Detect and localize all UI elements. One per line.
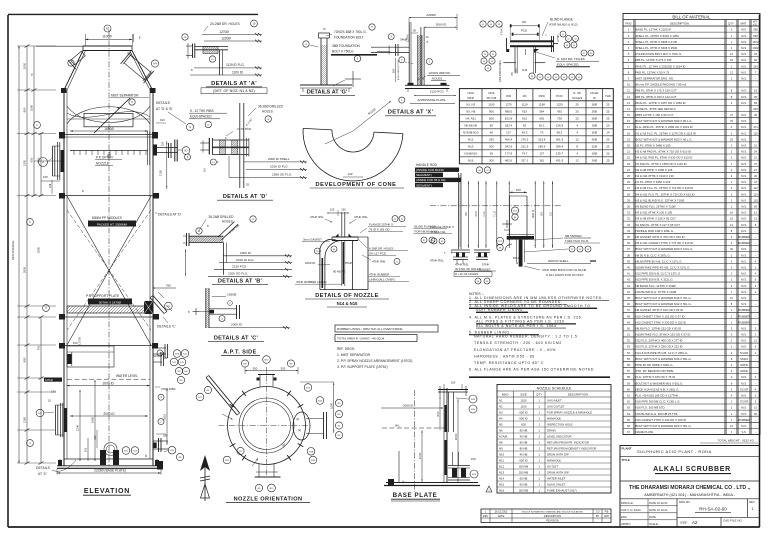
- top nozzle N14 N15 stub: [438, 389, 468, 391]
- svg-text:150: 150: [516, 188, 521, 192]
- svg-text:898.5: 898.5: [505, 110, 513, 114]
- svg-text:221.9: 221.9: [521, 145, 529, 149]
- svg-text:53: 53: [627, 345, 630, 349]
- svg-text:10: 10: [627, 83, 630, 87]
- vertical dim lines with labels: [467, 181, 469, 248]
- svg-text:37: 37: [754, 162, 757, 166]
- svg-text:PCD: PCD: [521, 29, 528, 33]
- svg-text:GAS INLET: GAS INLET: [547, 398, 562, 402]
- svg-text:BILL OF MATERIAL: BILL OF MATERIAL: [672, 14, 711, 19]
- svg-text:M.S.: M.S.: [741, 76, 747, 80]
- svg-text:OD: OD: [465, 212, 468, 216]
- svg-text:2225Ø: 2225Ø: [426, 13, 436, 17]
- svg-text:33: 33: [627, 223, 630, 227]
- svg-text:29: 29: [627, 198, 630, 202]
- svg-text:25: 25: [606, 110, 610, 114]
- svg-text:P.B: P.B: [605, 511, 609, 514]
- svg-text:N. MAT DR. HOLES: N. MAT DR. HOLES: [557, 57, 585, 61]
- development of cone: [303, 128, 403, 181]
- girth seam 2: [64, 195, 154, 197]
- sheet border top partial: [8, 13, 258, 15]
- svg-text:M.S.: M.S.: [741, 259, 747, 263]
- svg-text:WATER INLET: WATER INLET: [547, 476, 566, 480]
- svg-text:23: 23: [627, 162, 630, 166]
- svg-text:M.S.: M.S.: [741, 290, 747, 294]
- black box with X at wall: [144, 301, 153, 314]
- svg-text:150: 150: [471, 457, 476, 461]
- svg-text:M.S.: M.S.: [741, 326, 747, 330]
- bottom circles row: [537, 74, 543, 80]
- svg-text:18: 18: [627, 131, 630, 135]
- svg-text:RFD: RFD: [539, 94, 546, 98]
- svg-text:DEVELOPMENT OF CONE: DEVELOPMENT OF CONE: [315, 182, 396, 188]
- svg-text:(TYP): (TYP): [516, 68, 518, 74]
- svg-text:1150: 1150: [159, 170, 163, 176]
- svg-text:DATE: DATE: [649, 515, 656, 519]
- svg-text:2000 ID: 2000 ID: [240, 251, 252, 255]
- svg-text:HOLE: HOLE: [590, 91, 598, 95]
- svg-text:DESCRIPTION: DESCRIPTION: [568, 393, 589, 397]
- svg-text:DETAILS: DETAILS: [36, 466, 51, 470]
- top dim 1100: [85, 38, 132, 40]
- svg-text:40 NB: 40 NB: [520, 452, 528, 456]
- svg-text:127: 127: [506, 131, 511, 135]
- svg-text:DETAILS 'C': DETAILS 'C': [157, 325, 176, 329]
- shell walls: [63, 90, 65, 466]
- svg-text:12: 12: [754, 217, 757, 221]
- svg-text:738: 738: [557, 117, 562, 121]
- svg-text:FLG. RING PL. 25THK X 2286 OD: FLG. RING PL. 25THK X 2286 OD X 2019 ID: [636, 125, 693, 129]
- detail X hatched ring column: [417, 35, 419, 85]
- svg-text:43: 43: [627, 284, 630, 288]
- detail at C hatched column: [205, 288, 207, 328]
- svg-text:RIB PL. 8THK X 150 X 122: RIB PL. 8THK X 150 X 122 CUT: [636, 95, 677, 99]
- detail B left flange plate: [186, 233, 188, 246]
- svg-text:700: 700: [37, 345, 41, 350]
- svg-text:26Ø: 26Ø: [592, 103, 598, 107]
- svg-text:MIST SEPARATOR DRG. NO.: MIST SEPARATOR DRG. NO.: [636, 76, 675, 80]
- svg-text:N10 BLIND FLG. OTHK X 102Ø: N10 BLIND FLG. OTHK X 102Ø: [636, 290, 677, 294]
- svg-text:2120 PCD: 2120 PCD: [232, 265, 247, 269]
- bottom right outlet nozzle: [153, 440, 168, 442]
- svg-text:FOR N8,N9 & N11: FOR N8,N9 & N11: [415, 229, 439, 233]
- svg-text:1000: 1000: [329, 403, 333, 409]
- detail X wall section: [408, 22, 410, 85]
- svg-text:80 NB: 80 NB: [520, 440, 528, 444]
- svg-text:N12 PIPE 250 N.B. CL'C' X 137L: N12 PIPE 250 N.B. CL'C' X 137L.G.: [636, 272, 682, 276]
- svg-text:12: 12: [576, 138, 580, 142]
- svg-text:DATE: DATE: [498, 515, 505, 518]
- svg-text:APPRO: APPRO: [621, 522, 630, 526]
- svg-text:4THK RUBBER LINING: 4THK RUBBER LINING: [296, 280, 327, 284]
- svg-text:N1 PAD PL. 8THK X 117 X 95: N1 PAD PL. 8THK X 117 X 95 CUT: [636, 223, 681, 227]
- svg-text:N12: N12: [499, 464, 505, 468]
- svg-text:NOZZLE SCHEDULE: NOZZLE SCHEDULE: [537, 387, 572, 391]
- svg-text:M.S.: M.S.: [741, 180, 747, 184]
- svg-text:12: 12: [730, 424, 733, 428]
- svg-text:80MM PP SADDLES: 80MM PP SADDLES: [92, 216, 122, 220]
- target cross symbol: [345, 78, 361, 80]
- svg-text:BLIND FLANGE: BLIND FLANGE: [415, 224, 436, 228]
- dim 125 150: [327, 212, 349, 214]
- svg-text:M.S.: M.S.: [741, 302, 747, 306]
- svg-text:4THK RSL: 4THK RSL: [310, 215, 324, 219]
- svg-text:1900: 1900: [91, 416, 95, 423]
- svg-text:N3: N3: [499, 410, 503, 414]
- svg-text:65: 65: [490, 152, 494, 156]
- svg-text:DETAILS OF NOZZLE: DETAILS OF NOZZLE: [315, 293, 379, 299]
- svg-text:M.S.: M.S.: [741, 34, 747, 38]
- svg-text:4THK RIBS 8NOS FOR N3,N4,N8: 4THK RIBS 8NOS FOR N3,N4,N8: [542, 268, 586, 272]
- svg-text:FLG: FLG: [483, 212, 486, 217]
- svg-text:2019 ID FLG.: 2019 ID FLG.: [270, 165, 289, 169]
- svg-text:30: 30: [627, 205, 630, 209]
- svg-text:8THK: 8THK: [513, 256, 520, 260]
- svg-text:2120 PCD: 2120 PCD: [430, 90, 445, 94]
- svg-text:1050: 1050: [23, 62, 27, 69]
- signature grid: [620, 505, 648, 507]
- right flange stub: [306, 418, 323, 420]
- svg-text:STD. 90° BEND 80 OD HDPE: STD. 90° BEND 80 OD HDPE: [636, 369, 674, 373]
- svg-text:24: 24: [730, 58, 733, 62]
- svg-text:DRAIN: DRAIN: [547, 428, 556, 432]
- svg-text:RING PL. 12 THK X 2225OD X 202: RING PL. 12 THK X 2225OD X 2024 ID: [636, 64, 686, 68]
- svg-text:650: 650: [30, 157, 34, 162]
- svg-text:40: 40: [627, 265, 630, 269]
- svg-text:19: 19: [627, 137, 630, 141]
- internal spray header pipe: [70, 150, 148, 152]
- horizontal centerline: [430, 205, 561, 207]
- svg-text:APP: APP: [604, 515, 609, 518]
- svg-text:62: 62: [627, 400, 630, 404]
- svg-text:90 HDPE: 90 HDPE: [333, 269, 345, 273]
- svg-text:177.8: 177.8: [505, 152, 513, 156]
- svg-text:150: 150: [51, 390, 56, 394]
- svg-text:-: -: [755, 138, 756, 141]
- svg-text:DETAILS AT 'A': DETAILS AT 'A': [211, 81, 257, 87]
- svg-text:FOUNDATION BOLT M27 X 750L.G.: FOUNDATION BOLT M27 X 750L.G.: [636, 52, 683, 56]
- svg-text:N1 PL. 8THK X 3450 X 203: N1 PL. 8THK X 3450 X 203: [636, 180, 671, 184]
- svg-text:900: 900: [489, 110, 494, 114]
- svg-text:ALKALI INLET: ALKALI INLET: [547, 482, 565, 486]
- rev cell: [747, 499, 749, 518]
- svg-text:95: 95: [754, 95, 757, 99]
- svg-text:PIPE 80 OD HDPE X 600L.G.: PIPE 80 OD HDPE X 600L.G.: [636, 363, 674, 367]
- svg-text:PLANT: PLANT: [622, 447, 632, 451]
- svg-text:N2 PL. 8THK X 3480 X 100: N2 PL. 8THK X 3480 X 100: [636, 144, 671, 148]
- svg-text:28: 28: [627, 192, 630, 196]
- svg-text:M.S.: M.S.: [741, 40, 747, 44]
- 1150 dim outside wall: [166, 141, 168, 189]
- nozzle neck rectangle: [509, 196, 511, 240]
- svg-text:M.S.: M.S.: [741, 381, 747, 385]
- svg-text:N3 BLIND FLG. 25THK X 710Ø: N3 BLIND FLG. 25THK X 710Ø: [636, 205, 677, 209]
- svg-text:FUME EXHAUST (N17): FUME EXHAUST (N17): [547, 488, 577, 492]
- svg-text:31: 31: [754, 144, 757, 148]
- svg-text:N16: N16: [499, 488, 505, 492]
- svg-text:TEMP. RESISTANCE UPTO 85° C: TEMP. RESISTANCE UPTO 85° C: [474, 361, 544, 365]
- svg-text:58: 58: [627, 375, 630, 379]
- svg-text:M.S.: M.S.: [741, 131, 747, 135]
- svg-text:16: 16: [627, 119, 630, 123]
- svg-text:73: 73: [540, 131, 544, 135]
- svg-text:550: 550: [281, 366, 286, 370]
- svg-text:N4: N4: [499, 416, 503, 420]
- svg-text:900: 900: [23, 107, 27, 112]
- right manhole ellipse: [293, 412, 310, 440]
- svg-text:FL.G: FL.G: [494, 211, 497, 217]
- svg-text:SS316: SS316: [740, 357, 749, 361]
- svg-text:-: -: [755, 303, 756, 306]
- detail B vertical pipe: [222, 243, 224, 275]
- svg-text:35: 35: [754, 113, 757, 117]
- svg-text:N3 & N8 8THK X 105 X 95: N3 & N8 8THK X 105 X 95 CUT: [636, 217, 677, 221]
- svg-text:INSPECTION HOLE: INSPECTION HOLE: [547, 422, 573, 426]
- svg-text:25: 25: [606, 138, 610, 142]
- svg-text:600 ID: 600 ID: [519, 416, 527, 420]
- svg-text:N16 FLG. 300 NB STD.: N16 FLG. 300 NB STD.: [636, 406, 666, 410]
- svg-text:ELEVATION: ELEVATION: [84, 488, 130, 495]
- svg-text:NOZZLE: NOZZLE: [96, 162, 110, 166]
- svg-text:THE DHARAMSI MORARJI CHEMICAL: THE DHARAMSI MORARJI CHEMICAL CO . LTD .…: [629, 485, 751, 491]
- svg-text:PNO: PNO: [625, 21, 632, 25]
- svg-text:SHELL PL. 8THK X 6308 X 2530: SHELL PL. 8THK X 6308 X 2530: [636, 46, 678, 50]
- svg-text:DESCRIPTION: DESCRIPTION: [544, 515, 561, 518]
- svg-text:-: -: [755, 309, 756, 312]
- svg-text:N8: N8: [499, 440, 503, 444]
- svg-text:M.S.: M.S.: [741, 137, 747, 141]
- svg-text:72NOS 38Ø X 750L.G.: 72NOS 38Ø X 750L.G.: [334, 30, 367, 34]
- svg-text:-: -: [755, 77, 756, 80]
- svg-text:20-26Ø DR. HOLES: 20-26Ø DR. HOLES: [210, 22, 240, 26]
- svg-text:BOLT X 750LG: BOLT X 750LG: [332, 50, 354, 54]
- svg-text:210: 210: [93, 435, 97, 440]
- svg-text:1872: 1872: [753, 40, 759, 44]
- svg-text:20: 20: [730, 137, 733, 141]
- svg-text:52: 52: [627, 339, 630, 343]
- svg-text:435: 435: [557, 110, 562, 114]
- svg-text:890: 890: [23, 357, 27, 362]
- svg-text:S'COR: S'COR: [740, 400, 748, 404]
- svg-text:29,26: 29,26: [513, 211, 518, 213]
- svg-text:N3 & N11 BLIND FLG. 25THK X 71: N3 & N11 BLIND FLG. 25THK X 710Ø: [636, 198, 685, 202]
- svg-text:8.0: 8.0: [202, 168, 206, 172]
- svg-text:138: 138: [48, 183, 52, 188]
- detail X left nozzle flange: [371, 46, 409, 48]
- svg-text:HANDLE ROD: HANDLE ROD: [416, 163, 438, 167]
- svg-text:-: -: [755, 236, 756, 239]
- top label circles: [241, 360, 248, 367]
- svg-text:DESCRIPTION: DESCRIPTION: [670, 21, 689, 25]
- svg-text:NATURAL HARD RUBBER, DENSITY :: NATURAL HARD RUBBER, DENSITY : 1.2 TO 1.…: [474, 335, 577, 339]
- svg-text:BY: BY: [596, 515, 600, 518]
- svg-text:N3 & N11 GASKET 3THK X 770 OD: N3 & N11 GASKET 3THK X 770 OD X 610 ID: [636, 241, 694, 245]
- svg-text:150: 150: [341, 208, 346, 212]
- spray nozzle band: [52, 146, 54, 176]
- lower right nozzle cluster: [153, 355, 162, 357]
- svg-text:M.S.: M.S.: [741, 375, 747, 379]
- svg-text:N8,N9 PIPE 80 N.B. CL'C' X 137: N8,N9 PIPE 80 N.B. CL'C' X 137L.G.: [636, 259, 683, 263]
- svg-text:N10/INTAKE FLG. 8THK X 133 OD: N10/INTAKE FLG. 8THK X 133 OD X 57 ID: [636, 333, 691, 337]
- svg-text:54: 54: [627, 351, 630, 355]
- svg-text:2280 OD FLG.: 2280 OD FLG.: [272, 173, 292, 177]
- svg-text:HDPE: HDPE: [740, 363, 748, 367]
- top flange stub: [258, 374, 275, 376]
- svg-text:26.02.2002: 26.02.2002: [495, 511, 508, 514]
- svg-text:2225Ø BASE PLATE: 2225Ø BASE PLATE: [418, 98, 446, 102]
- rim nozzle marks: [298, 404, 304, 407]
- detail C cross mark: [193, 311, 200, 313]
- svg-text:M.S.: M.S.: [741, 333, 747, 337]
- svg-text:M.S.: M.S.: [741, 95, 747, 99]
- svg-text:N7A: N7A: [309, 450, 314, 453]
- svg-text:20: 20: [627, 144, 630, 148]
- svg-text:M.S.: M.S.: [741, 192, 747, 196]
- svg-text:70: 70: [730, 119, 733, 123]
- left inside flange: [67, 354, 71, 364]
- svg-text:98.2: 98.2: [557, 131, 563, 135]
- svg-text:11: 11: [754, 339, 757, 343]
- svg-text:361.9: 361.9: [556, 138, 564, 142]
- svg-text:600: 600: [521, 422, 526, 426]
- svg-text:132: 132: [347, 172, 352, 176]
- svg-text:MKD: MKD: [467, 96, 475, 100]
- svg-text:(FOR N8,N10 & N12): (FOR N8,N10 & N12): [549, 23, 578, 27]
- dim chain 3: [33, 90, 35, 196]
- svg-text:M.S.: M.S.: [741, 28, 747, 32]
- svg-text:269.9: 269.9: [538, 145, 546, 149]
- svg-text:190: 190: [160, 118, 165, 122]
- svg-text:47: 47: [627, 308, 630, 312]
- svg-text:46: 46: [627, 302, 630, 306]
- svg-text:32: 32: [627, 217, 630, 221]
- svg-text:55: 55: [627, 357, 630, 361]
- svg-text:M.S.: M.S.: [741, 424, 747, 428]
- svg-text:DETAILS AT 'X': DETAILS AT 'X': [388, 110, 434, 116]
- svg-text:SHELL PL. 8THK X 6308 X 4730: SHELL PL. 8THK X 6308 X 4730: [636, 40, 678, 44]
- svg-text:SIZE: SIZE: [520, 393, 527, 397]
- left slant nozzle on cone: [68, 50, 88, 69]
- svg-text:32: 32: [730, 247, 733, 251]
- svg-text:TENSILE STRENGTH : 200 - 600 K: TENSILE STRENGTH : 200 - 600 KG/CM2: [474, 341, 562, 345]
- svg-text:BASE PLATE: BASE PLATE: [393, 492, 438, 499]
- detail A pipe section: [195, 46, 228, 48]
- water level line: [67, 378, 150, 380]
- svg-text:FLANGE 25THK X: FLANGE 25THK X: [369, 222, 393, 226]
- svg-text:12: 12: [576, 159, 580, 163]
- nozzle orientation circle: [228, 387, 306, 465]
- svg-text:N7A/B: N7A/B: [499, 434, 507, 438]
- svg-text:25: 25: [606, 145, 610, 149]
- svg-text:M.S.: M.S.: [741, 412, 747, 416]
- svg-text:N11: N11: [499, 458, 504, 462]
- svg-text:NAME PLATE: NAME PLATE: [636, 430, 654, 434]
- svg-text:12: 12: [730, 52, 733, 56]
- svg-text:N4, N11: N4, N11: [466, 117, 477, 121]
- svg-text:M.S.: M.S.: [741, 198, 747, 202]
- svg-text:N13 PIPE 200 N.B. X 312L.G.: N13 PIPE 200 N.B. X 312L.G.: [636, 278, 674, 282]
- top dim 550 550: [245, 370, 298, 372]
- svg-text:1810: 1810: [163, 414, 167, 420]
- shell wall section: [443, 388, 445, 483]
- hatched blind segment column: [458, 173, 460, 249]
- left manhole N11 flange: [55, 405, 57, 435]
- svg-text:19Ø: 19Ø: [592, 152, 598, 156]
- svg-text:RUBBER: RUBBER: [738, 308, 749, 312]
- svg-text:10THK: 10THK: [558, 34, 560, 42]
- svg-text:25: 25: [576, 117, 580, 121]
- svg-text:DATE 16.Jul.01: DATE 16.Jul.01: [649, 508, 668, 512]
- svg-text:1270Ø: 1270Ø: [219, 30, 229, 34]
- svg-text:-: -: [755, 364, 756, 367]
- svg-text:6930 OVERALL: 6930 OVERALL: [11, 240, 15, 260]
- svg-text:N13 FLG. 12THK X 336 OD X 222: N13 FLG. 12THK X 336 OD X 222 ID: [636, 345, 683, 349]
- svg-text:20: 20: [606, 152, 610, 156]
- svg-text:ALKALI SCRUBBER: ALKALI SCRUBBER: [653, 466, 731, 473]
- svg-text:FOUNDATION BOLT: FOUNDATION BOLT: [334, 36, 364, 40]
- svg-text:IN F.NO OF HOLES: IN F.NO OF HOLES: [455, 267, 481, 271]
- svg-text:ON 127 PCD: ON 127 PCD: [369, 251, 386, 255]
- svg-text:DETAILS AT 'D': DETAILS AT 'D': [223, 194, 268, 200]
- svg-text:38: 38: [627, 253, 630, 257]
- svg-text:550: 550: [253, 366, 258, 370]
- svg-text:NB TAPPED: NB TAPPED: [565, 234, 583, 238]
- svg-text:812.8: 812.8: [505, 117, 513, 121]
- right mid nozzle stub: [153, 347, 166, 349]
- svg-text:N8 50 N.B. CL'C' X 287L.G.: N8 50 N.B. CL'C' X 287L.G.: [636, 253, 671, 257]
- svg-text:M.S.: M.S.: [741, 52, 747, 56]
- base plate of vessel: [64, 458, 153, 460]
- svg-text:200: 200: [489, 145, 494, 149]
- svg-text:2000 ID SHELL: 2000 ID SHELL: [548, 259, 569, 263]
- svg-text:RING PL. 12THK X 1657 OD X 165: RING PL. 12THK X 1657 OD X 1650 ID: [636, 101, 686, 105]
- svg-text:210: 210: [84, 447, 88, 452]
- svg-text:300 NB: 300 NB: [519, 488, 528, 492]
- svg-text:N1: N1: [499, 398, 503, 402]
- svg-text:M.S.: M.S.: [741, 46, 747, 50]
- svg-text:N16 PIPE 300 NB CL'C' X 265 L.: N16 PIPE 300 NB CL'C' X 265 L.G.: [636, 400, 681, 404]
- svg-text:DETAILS AT 'D': DETAILS AT 'D': [158, 213, 182, 217]
- svg-text:44: 44: [627, 290, 630, 294]
- svg-text:42: 42: [627, 278, 630, 282]
- svg-text:RUBBER: RUBBER: [738, 314, 749, 318]
- right dim 1000: [333, 382, 335, 433]
- side ledges: [503, 62, 516, 64]
- svg-text:SIZE-: SIZE-: [680, 521, 688, 525]
- svg-text:M.S.: M.S.: [741, 125, 747, 129]
- svg-text:THK: THK: [605, 94, 611, 98]
- svg-text:63: 63: [627, 406, 630, 410]
- revision table: [481, 509, 611, 523]
- dim 780 right side: [153, 287, 176, 289]
- svg-text:24: 24: [627, 168, 630, 172]
- svg-text:163: 163: [753, 64, 758, 68]
- svg-text:20: 20: [606, 124, 610, 128]
- svg-text:(FULL RING) 12THK: (FULL RING) 12THK: [398, 59, 400, 80]
- svg-text:PAD PL. 12THK X 50 X 75: PAD PL. 12THK X 50 X 75: [636, 70, 670, 74]
- blind flange plate bars: [510, 40, 553, 42]
- svg-text:TOTAL WEIGHT : 6152 KG: TOTAL WEIGHT : 6152 KG: [718, 439, 755, 443]
- svg-text:30: 30: [754, 412, 757, 416]
- svg-text:25: 25: [627, 174, 630, 178]
- svg-text:M.S.: M.S.: [741, 211, 747, 215]
- svg-text:ELONGATION AT FRACTURE : 3 -: ELONGATION AT FRACTURE : 3 - 90%: [474, 348, 556, 352]
- svg-text:N3, N8: N3, N8: [466, 110, 475, 114]
- svg-text:39: 39: [627, 259, 630, 263]
- svg-text:BOLT WITH NUT & WASHER M16 X 6: BOLT WITH NUT & WASHER M16 X 65L.G.: [636, 357, 692, 361]
- svg-text:N13: N13: [499, 470, 505, 474]
- svg-text:127: 127: [539, 152, 544, 156]
